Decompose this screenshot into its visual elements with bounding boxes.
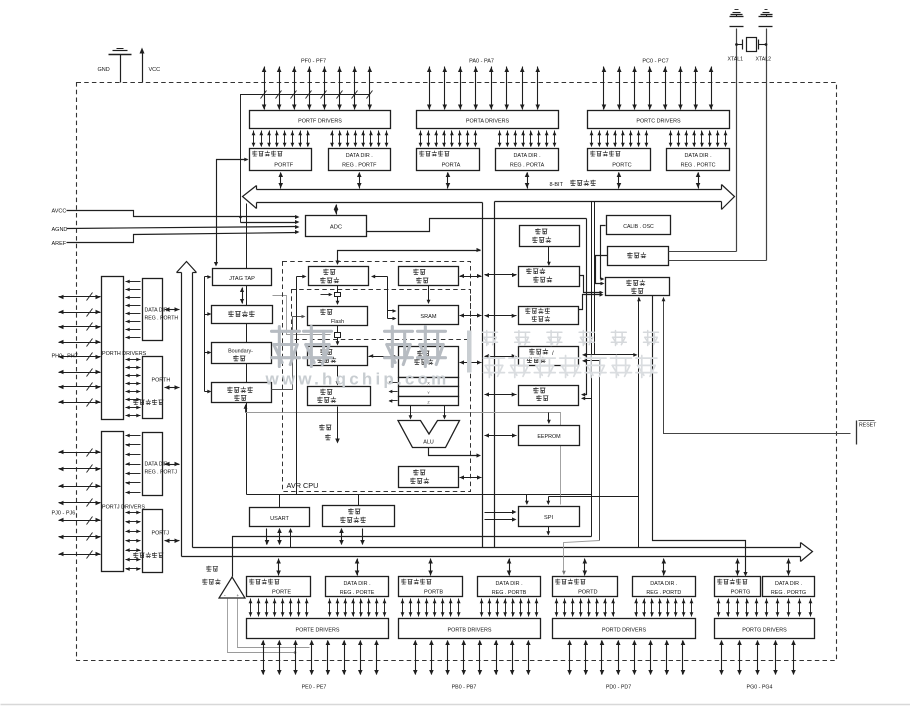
svg-text:PORTE: PORTE bbox=[272, 590, 291, 596]
svg-text:PORTA: PORTA bbox=[442, 163, 461, 169]
svg-text:PORTF DRIVERS: PORTF DRIVERS bbox=[298, 119, 342, 125]
svg-text:PORTJ: PORTJ bbox=[152, 531, 170, 537]
svg-text:RESET: RESET bbox=[859, 423, 877, 429]
svg-text:Boundary-: Boundary- bbox=[228, 349, 253, 355]
svg-text:8-BIT: 8-BIT bbox=[550, 182, 564, 188]
svg-text:PA0 - PA7: PA0 - PA7 bbox=[469, 59, 494, 65]
svg-text:PORTB: PORTB bbox=[424, 590, 443, 596]
svg-text:VCC: VCC bbox=[149, 67, 161, 73]
svg-text:PORTA DRIVERS: PORTA DRIVERS bbox=[466, 119, 510, 125]
svg-text:Y: Y bbox=[427, 391, 430, 395]
svg-text:REG . PORTB: REG . PORTB bbox=[492, 590, 527, 596]
svg-text:PH0 - PH7: PH0 - PH7 bbox=[52, 354, 78, 360]
svg-text:REG . PORTH: REG . PORTH bbox=[145, 316, 179, 322]
svg-text:PORTF: PORTF bbox=[274, 163, 293, 169]
svg-text:XTAL2: XTAL2 bbox=[756, 57, 772, 63]
svg-text:PE0 - PE7: PE0 - PE7 bbox=[302, 685, 327, 691]
svg-text:DATA DIR .: DATA DIR . bbox=[514, 153, 541, 159]
svg-text:PF0 - PF7: PF0 - PF7 bbox=[301, 59, 326, 65]
svg-text:PORTE DRIVERS: PORTE DRIVERS bbox=[296, 628, 340, 634]
svg-text:REG . PORTD: REG . PORTD bbox=[646, 590, 681, 596]
svg-text:SPI: SPI bbox=[544, 515, 553, 521]
svg-text:REG . PORTF: REG . PORTF bbox=[342, 163, 377, 169]
svg-text:AGND: AGND bbox=[52, 227, 68, 233]
svg-text:+: + bbox=[237, 593, 240, 598]
svg-text:AREF: AREF bbox=[52, 241, 67, 247]
svg-text:XTAL1: XTAL1 bbox=[728, 57, 744, 63]
svg-text:CALIB . OSC: CALIB . OSC bbox=[623, 224, 654, 230]
svg-text:REG . PORTA: REG . PORTA bbox=[510, 163, 545, 169]
svg-text:AVCC: AVCC bbox=[52, 209, 67, 215]
svg-text:EEPROM: EEPROM bbox=[537, 434, 561, 440]
svg-text:PORTD DRIVERS: PORTD DRIVERS bbox=[602, 628, 647, 634]
svg-text:PG0 - PG4: PG0 - PG4 bbox=[747, 685, 773, 691]
svg-text:AVR CPU: AVR CPU bbox=[287, 481, 319, 490]
svg-text:SRAM: SRAM bbox=[420, 314, 437, 320]
svg-text:JTAG TAP: JTAG TAP bbox=[229, 276, 255, 282]
svg-text:PORTD: PORTD bbox=[578, 590, 597, 596]
svg-text:PORTJ DRIVERS: PORTJ DRIVERS bbox=[102, 505, 145, 511]
svg-text:PJ0 - PJ6: PJ0 - PJ6 bbox=[52, 511, 76, 517]
svg-text:REG . PORTE: REG . PORTE bbox=[340, 590, 375, 596]
svg-text:REG . PORTG: REG . PORTG bbox=[771, 590, 806, 596]
svg-text:PORTH: PORTH bbox=[152, 378, 171, 384]
svg-text:DATA DIR .: DATA DIR . bbox=[775, 581, 802, 587]
svg-text:PORTB DRIVERS: PORTB DRIVERS bbox=[448, 628, 492, 634]
svg-text:PORTG: PORTG bbox=[731, 590, 751, 596]
svg-text:PORTC: PORTC bbox=[612, 163, 631, 169]
svg-text:DATA DIR .: DATA DIR . bbox=[145, 308, 171, 314]
svg-text:ALU: ALU bbox=[423, 440, 434, 446]
svg-text:PD0 - PD7: PD0 - PD7 bbox=[606, 685, 631, 691]
svg-text:PB0 - PB7: PB0 - PB7 bbox=[452, 685, 477, 691]
svg-text:DATA DIR .: DATA DIR . bbox=[496, 581, 523, 587]
svg-text:PORTG DRIVERS: PORTG DRIVERS bbox=[742, 628, 787, 634]
svg-text:www.hqchip.com: www.hqchip.com bbox=[265, 370, 450, 389]
svg-text:Flash: Flash bbox=[331, 319, 344, 325]
svg-text:ADC: ADC bbox=[330, 225, 342, 231]
svg-text:REG . PORTC: REG . PORTC bbox=[681, 163, 716, 169]
svg-text:DATA DIR .: DATA DIR . bbox=[685, 153, 712, 159]
svg-text:USART: USART bbox=[270, 516, 289, 522]
svg-text:REG . PORTJ: REG . PORTJ bbox=[145, 470, 178, 476]
svg-text:DATA DIR .: DATA DIR . bbox=[344, 581, 371, 587]
svg-text:GND: GND bbox=[98, 67, 110, 73]
svg-text:DATA DIR .: DATA DIR . bbox=[346, 153, 373, 159]
svg-text:PORTH DRIVERS: PORTH DRIVERS bbox=[102, 351, 147, 357]
svg-text:DATA DIR .: DATA DIR . bbox=[650, 581, 677, 587]
svg-text:PC0 - PC7: PC0 - PC7 bbox=[642, 59, 668, 65]
svg-text:PORTC DRIVERS: PORTC DRIVERS bbox=[636, 119, 681, 125]
